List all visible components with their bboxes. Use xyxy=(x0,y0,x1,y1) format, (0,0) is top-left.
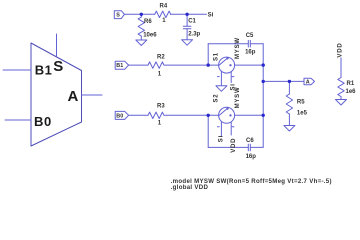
wire node to R4 xyxy=(141,13,154,15)
ground under R5 xyxy=(284,126,295,132)
svg-text:Si: Si xyxy=(208,13,214,19)
svg-text:R6: R6 xyxy=(144,19,152,25)
wire B1 to R2 xyxy=(129,64,148,66)
switch S1 xyxy=(217,57,234,86)
wire B0 node down to C6 rail xyxy=(207,115,209,147)
node R5 tap xyxy=(288,80,291,83)
svg-text:Si: Si xyxy=(218,135,224,142)
svg-text:S1: S1 xyxy=(214,52,220,61)
svg-text:2.3p: 2.3p xyxy=(188,31,200,37)
svg-text:VDD: VDD xyxy=(231,138,237,153)
svg-text:B0: B0 xyxy=(34,114,52,129)
junction dots xyxy=(140,13,291,117)
node B1/S1/C5 xyxy=(207,63,210,66)
svg-text:B1: B1 xyxy=(116,63,123,69)
wire R2 to node xyxy=(165,64,209,66)
svg-text:R3: R3 xyxy=(157,104,165,110)
resistor R2 xyxy=(148,62,164,68)
wire S1 to bus xyxy=(235,64,264,66)
svg-text:C6: C6 xyxy=(246,138,254,144)
wire VDD to R1 xyxy=(340,58,342,78)
mux input wire B0 xyxy=(5,119,31,121)
svg-text:MYSW: MYSW xyxy=(235,37,241,59)
capacitor C1 xyxy=(183,14,191,39)
wire bus top xyxy=(262,44,264,65)
ground under R1 xyxy=(336,100,347,106)
node S/R6/R4 xyxy=(140,13,143,16)
node bus S1 xyxy=(262,63,265,66)
resistor R4 xyxy=(155,11,171,17)
node R4/C1/Si xyxy=(185,13,188,16)
svg-text:VDD: VDD xyxy=(337,43,343,58)
mux input wire B1 xyxy=(3,69,31,71)
port flag B1 xyxy=(115,61,128,69)
wire B0 to R3 xyxy=(129,114,148,116)
ground under C1 xyxy=(182,40,193,46)
mux output wire A xyxy=(82,94,103,96)
svg-text:B0: B0 xyxy=(116,113,123,119)
wire node to S2 xyxy=(208,114,218,116)
wire R4 to node xyxy=(170,13,187,15)
port flag S xyxy=(114,11,124,19)
node bus A xyxy=(262,80,265,83)
switch S2 xyxy=(217,107,234,135)
svg-text:C1: C1 xyxy=(188,18,196,24)
svg-text:S: S xyxy=(116,12,120,18)
svg-text:R1: R1 xyxy=(347,81,355,87)
svg-text:C5: C5 xyxy=(246,33,254,39)
wire C5 rail left xyxy=(208,43,248,45)
svg-text:1e5: 1e5 xyxy=(297,110,308,116)
wire C6 rail left xyxy=(208,146,248,148)
wire C6 rail right xyxy=(250,146,263,148)
port flag A xyxy=(304,78,315,84)
svg-text:16p: 16p xyxy=(246,154,257,160)
svg-text:MYSW: MYSW xyxy=(235,87,241,109)
node B0/S2/C6 xyxy=(207,114,210,117)
wire B1 node up to C5 rail xyxy=(207,44,209,65)
svg-text:.global VDD: .global VDD xyxy=(171,184,209,191)
resistor R3 xyxy=(148,112,164,118)
resistor R5 xyxy=(286,81,292,125)
ground under R6 xyxy=(136,40,147,46)
svg-text:R5: R5 xyxy=(297,99,305,105)
svg-text:A: A xyxy=(68,88,79,105)
resistor R1 xyxy=(338,78,344,100)
wire C5 rail right xyxy=(250,43,263,45)
wire node to Si label xyxy=(187,13,206,15)
svg-text:16p: 16p xyxy=(245,50,256,56)
capacitor C5 xyxy=(248,40,250,47)
port flag B0 xyxy=(115,111,128,119)
wire S2 to bus xyxy=(235,114,264,116)
capacitor C6 xyxy=(248,144,250,151)
resistor R6 xyxy=(138,14,144,40)
svg-text:B1: B1 xyxy=(35,63,53,78)
svg-text:10e6: 10e6 xyxy=(143,33,157,39)
wire S to node xyxy=(124,13,141,15)
svg-text:R2: R2 xyxy=(157,54,165,60)
wire node to S1 xyxy=(208,64,218,66)
svg-text:S2: S2 xyxy=(214,94,220,103)
ground under S1 xyxy=(216,86,227,92)
mux select wire S xyxy=(56,34,58,57)
node bus S2 xyxy=(262,114,265,117)
wire bus to A flag xyxy=(263,80,304,82)
svg-text:A: A xyxy=(306,80,310,86)
svg-text:S: S xyxy=(53,58,63,75)
svg-text:R4: R4 xyxy=(160,3,168,9)
wire bus bottom xyxy=(262,115,264,147)
svg-text:1e6: 1e6 xyxy=(346,89,357,95)
mux symbol body xyxy=(31,43,82,146)
wire R3 to node xyxy=(165,114,209,116)
wire bus middle xyxy=(262,65,264,115)
